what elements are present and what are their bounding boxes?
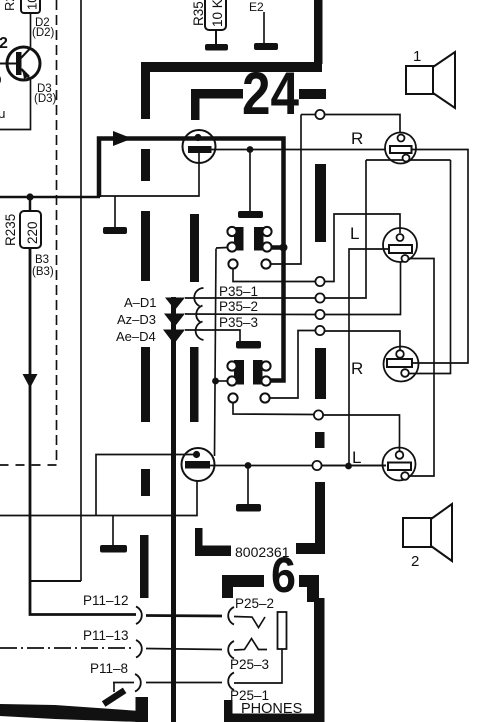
wire R1 bottom pin row y160	[366, 159, 451, 161]
module 24 border: right column dash	[315, 348, 326, 399]
connector arc P11-12	[136, 607, 142, 625]
ground G6	[236, 504, 261, 512]
phones module border: top-right corner	[299, 575, 319, 587]
wire E2 to ground	[263, 12, 265, 43]
connector arc P25-3	[228, 641, 234, 659]
phones module border: top-left corner	[222, 575, 264, 587]
connector arc P25-2	[228, 607, 234, 625]
svg-text:0: 0	[0, 75, 1, 87]
module 6 border: left corner piece	[195, 528, 203, 556]
phones module border: right vertical	[314, 598, 325, 722]
svg-text:Ae–D4: Ae–D4	[116, 329, 156, 344]
wire P35-1 row	[185, 297, 315, 299]
arrow on thick wire	[113, 131, 132, 146]
diode Ae-D4	[163, 330, 185, 345]
module 24 inner border: corner vertical	[191, 89, 200, 120]
bottom-left module border bar	[0, 704, 140, 722]
transistor Q2	[0, 47, 40, 80]
resistor R235 value 220	[3, 199, 41, 248]
node junction dot at (248,466)	[245, 462, 252, 469]
ground under R35x	[205, 44, 228, 51]
wire circle to R1 jack top pin	[325, 115, 401, 133]
wire S1 lower-left circle to P35 row 1	[233, 269, 315, 282]
svg-text:6: 6	[271, 547, 296, 603]
connector arc P35-2	[196, 306, 202, 323]
node junction on thick wire	[280, 244, 288, 252]
ground G5	[236, 341, 261, 349]
svg-text:10 K: 10 K	[210, 0, 225, 27]
wire L1 bottom pin right to rail x434	[409, 259, 434, 477]
switch S2 lower contact circles	[228, 393, 269, 402]
module 24 border: thick dash right of label	[299, 89, 326, 99]
module 24 border: left corner vertical	[141, 62, 150, 119]
connector arc P25-1	[228, 673, 234, 691]
wire P35-2 row	[185, 313, 315, 316]
ground G3	[103, 227, 127, 234]
svg-text:P11–12: P11–12	[83, 593, 129, 608]
wire P11-12 to P25-2 (thick)	[146, 614, 222, 617]
thick signal wire: corner up from y197 then right along y138	[99, 139, 284, 381]
switch S1 lower contact circles	[228, 259, 270, 268]
dashed boundary line vertical x56	[56, 0, 58, 465]
module 24 border: right column dash	[315, 432, 325, 448]
wire (320,281) to L1 jack top pin	[325, 214, 401, 282]
phones module border: bottom bar	[228, 714, 324, 722]
connector circle row (320,281)	[315, 277, 324, 286]
wire (320,315) to L1 bottom pin	[325, 262, 401, 315]
node junction at (30,197)	[26, 193, 33, 200]
svg-text:R2: R2	[2, 0, 17, 11]
wire L1 slot left to rail x349 down to dot	[349, 249, 389, 466]
module 24 border: right column dash	[315, 164, 326, 242]
speaker 2	[403, 504, 452, 561]
connector circle row (318,415)	[314, 410, 323, 419]
svg-text:10: 10	[25, 0, 40, 10]
switch S1 contact circles	[227, 227, 271, 252]
svg-text:μ: μ	[0, 106, 6, 121]
jack R2	[384, 347, 419, 382]
wire jog x81 to B3 line	[30, 580, 81, 582]
wire S2 lower-right circle to x298 rail up	[270, 331, 316, 399]
wire R1 slot right to rail x468	[412, 150, 469, 364]
diode Az-D3	[164, 314, 185, 328]
thick wire below diodes down to bottom edge	[171, 297, 176, 722]
diode A-D1	[165, 298, 185, 311]
wire stem to ground G7	[112, 516, 114, 546]
node junction dot at (215,381)	[212, 378, 219, 385]
switch S2 contact bars	[234, 360, 244, 385]
wire dot down to ground G6	[247, 468, 249, 504]
cut label at left edge	[0, 75, 6, 121]
svg-text:P25–3: P25–3	[230, 657, 269, 672]
module 24 border: left column dash	[141, 149, 150, 181]
speaker 1	[406, 52, 455, 108]
lamp/jack U2 bottom	[182, 448, 215, 481]
wire lamp U1 slot to R jack line y149	[212, 149, 387, 151]
wire left loop up to lamp U2 top dot	[96, 455, 193, 516]
connector circle P35-1 row (320,298)	[315, 293, 324, 302]
wire S1 left contact to x216 rail	[216, 247, 227, 250]
jack L2	[383, 448, 416, 481]
rail x450 down to R2 bottom pin	[409, 160, 451, 374]
thick branch to switch 1	[272, 245, 284, 250]
node junction dot at (348,467)	[345, 463, 352, 470]
connector arc P11-13	[136, 640, 142, 658]
label D3 (D3)	[34, 83, 57, 105]
wire (318,415) to L2 top pin	[323, 415, 400, 451]
solid boundary line x81	[80, 0, 82, 581]
svg-text:P35–1: P35–1	[219, 284, 258, 299]
wire horizontal y197 from left edge	[0, 196, 100, 199]
phones module border: bottom-left stub	[224, 700, 233, 722]
svg-text:P35–3: P35–3	[219, 315, 258, 330]
switch S1 contact bars	[234, 227, 244, 251]
wire lamp U1 bottom stem	[101, 153, 199, 196]
wire S1 lower-right circle to x301 rail	[271, 115, 302, 265]
svg-text:R: R	[351, 129, 363, 148]
connector circle on border (320,114)	[315, 110, 324, 119]
wire dot down to ground	[249, 152, 251, 211]
svg-text:2: 2	[0, 35, 8, 52]
wire P35-3 row to ground	[185, 330, 240, 341]
svg-text:1: 1	[413, 48, 421, 65]
wire stem to ground G3	[114, 196, 116, 227]
svg-text:R35: R35	[191, 1, 206, 26]
lamp/jack U1 top	[183, 130, 216, 163]
module 24 inner border: dash	[190, 347, 199, 422]
svg-text:24: 24	[242, 60, 300, 127]
ground below dot	[238, 211, 263, 218]
wire dot to switch S2 left contact	[216, 380, 227, 382]
module 24 border: right vertical to top edge	[314, 0, 323, 64]
dashed boundary corner to left	[0, 464, 57, 466]
svg-text:R: R	[351, 359, 363, 378]
wire (320,298) to R1 bottom pin rail x366	[325, 160, 367, 298]
switch S2 contact circles	[227, 361, 270, 385]
svg-text:P35–2: P35–2	[219, 299, 258, 314]
wire B3 line down to P11-12	[30, 248, 136, 615]
jack L1	[383, 228, 417, 262]
wire S2 lower-left circle down and right	[233, 403, 314, 415]
resistor R2xx (cut at top edge)	[2, 0, 40, 13]
svg-text:(B3): (B3)	[32, 266, 54, 278]
svg-text:L: L	[350, 224, 359, 243]
svg-text:P11–8: P11–8	[90, 661, 128, 676]
switch lever diagonal mark	[102, 688, 127, 707]
jack R1	[385, 133, 416, 164]
svg-text:P25–2: P25–2	[235, 596, 274, 611]
resistor R35x value 10K (cut at top edge)	[191, 0, 226, 44]
label B3 (B3)	[32, 254, 54, 278]
wire P11-13 dash-dot from left edge	[0, 647, 133, 649]
wire L2 bottom pin handled by rail x434	[322, 465, 387, 467]
connector arc P35-3	[196, 322, 204, 341]
node junction dot at (250,149)	[247, 146, 254, 153]
rail x216 down to lamp U2	[215, 249, 217, 457]
svg-text:PHONES: PHONES	[241, 701, 302, 717]
arrow on B3 wire	[23, 374, 38, 388]
connector arc P11-8	[135, 674, 141, 692]
label D2 (D2)	[32, 17, 55, 39]
wire P11-8 to P25-1	[146, 682, 222, 684]
svg-text:Az–D3: Az–D3	[117, 312, 156, 327]
wire stub left of P11-8 with switch lever	[113, 683, 134, 693]
connector circle P35-2 row (320,315)	[315, 310, 324, 319]
wire lamp U2 slot right to L2 jack	[210, 465, 386, 467]
module 24 inner border: horizontal bar	[191, 89, 243, 99]
module 24 border: left column dash	[141, 347, 150, 422]
svg-text:(D3): (D3)	[34, 93, 57, 105]
svg-text:A–D1: A–D1	[124, 295, 157, 310]
svg-text:E2: E2	[249, 0, 264, 14]
svg-text:B3: B3	[35, 254, 49, 266]
wire jack bottom to P25-1	[234, 649, 282, 683]
wire P25-2 with break contact V	[234, 617, 265, 628]
svg-text:(D2): (D2)	[32, 27, 55, 39]
module 24 border: left column dash	[141, 211, 150, 281]
ground under E2	[254, 43, 278, 50]
module 24 inner border: dash	[190, 214, 199, 282]
connector circle row (320,330)	[315, 326, 324, 335]
connector arc P35-1	[194, 288, 203, 306]
svg-text:R235: R235	[3, 214, 18, 246]
svg-text:P11–13: P11–13	[83, 628, 129, 643]
connector circle row (317,466)	[312, 461, 321, 470]
ground G7	[100, 545, 127, 553]
wire transistor emitter to left edge	[0, 80, 31, 130]
wire circle left side down rail x301	[301, 114, 316, 116]
bottom-left module border vertical	[136, 697, 149, 722]
module 24 border: left column dash	[140, 535, 149, 598]
wire R2xx to transistor collector	[30, 13, 32, 47]
wire P11-13 to P25-3	[146, 649, 222, 650]
wire P25-3 with contact peak	[234, 639, 267, 651]
module 24 border: top bar	[141, 62, 322, 72]
wire (320,330) to R2 top pin	[325, 331, 401, 350]
module 24 border: right column dash with corner foot	[315, 482, 325, 554]
svg-text:220: 220	[25, 221, 40, 244]
wire lamp U2 bottom stem loop	[0, 481, 197, 516]
svg-text:2: 2	[411, 553, 419, 570]
headphone jack element	[278, 612, 287, 649]
module 24 border: left column dash	[141, 469, 150, 496]
svg-text:L: L	[352, 448, 361, 467]
